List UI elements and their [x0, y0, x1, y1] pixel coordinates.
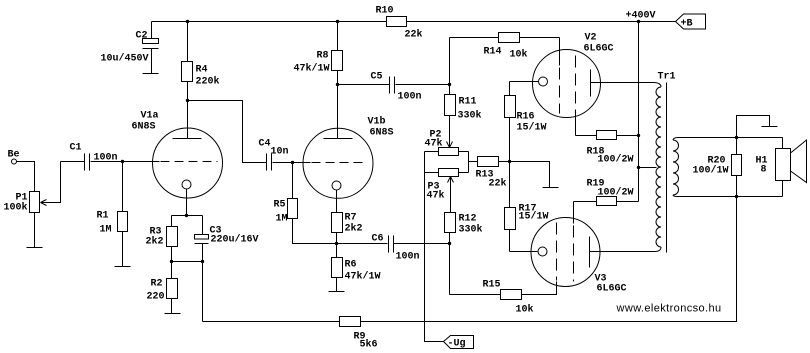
svg-text:6N8S: 6N8S [132, 122, 156, 133]
node R7 C6 junction [335, 242, 338, 245]
svg-text:47k: 47k [425, 138, 443, 150]
svg-text:330k: 330k [459, 224, 483, 236]
resistor R3 [146, 216, 178, 262]
resistor R15 [450, 244, 557, 316]
svg-text:1M: 1M [276, 214, 288, 225]
svg-text:V1b: V1b [368, 116, 386, 128]
svg-text:10k: 10k [510, 49, 528, 61]
svg-text:Tr1: Tr1 [658, 72, 676, 83]
resistor R5 [274, 163, 337, 244]
capacitor C2 [101, 22, 159, 74]
node R8 C5 junction [336, 83, 339, 86]
svg-text:220k: 220k [196, 76, 220, 88]
ground R16 R17 [510, 162, 559, 188]
svg-text:100n: 100n [396, 252, 420, 263]
resistor R17 [505, 162, 549, 252]
resistor R2 [147, 262, 178, 314]
resistor R10 [376, 6, 423, 41]
svg-text:C4: C4 [259, 139, 271, 150]
svg-text:2k2: 2k2 [345, 223, 363, 235]
ground R1 [115, 266, 131, 268]
node R4 plate junction [186, 99, 189, 102]
svg-text:C6: C6 [372, 234, 384, 245]
ground R6 [329, 291, 345, 293]
wire C3 to feedback rail [202, 262, 204, 322]
svg-text:15/1W: 15/1W [517, 122, 547, 134]
svg-text:8: 8 [761, 165, 767, 176]
node C3 bottom junction [201, 260, 204, 263]
resistor R16 [505, 82, 547, 162]
svg-text:5k6: 5k6 [360, 339, 378, 351]
svg-text:R14: R14 [484, 47, 502, 58]
wire +400V down rail [638, 22, 640, 202]
svg-text:47k/1W: 47k/1W [294, 63, 330, 75]
resistor R1 [97, 162, 128, 267]
potentiometer P3 [425, 169, 469, 202]
svg-text:C2: C2 [136, 31, 148, 42]
node R13 R16 junction [508, 160, 511, 163]
svg-text:R4: R4 [196, 65, 208, 76]
capacitor C6 [337, 234, 450, 263]
node top rail junction R4 [186, 20, 189, 23]
wire feedback bottom rail [361, 197, 737, 322]
svg-text:22k: 22k [405, 29, 423, 41]
node +400V [626, 11, 656, 24]
svg-text:R1: R1 [97, 211, 109, 222]
resistor R6 [332, 244, 381, 292]
svg-text:330k: 330k [458, 110, 482, 122]
node V1a cathode junction [185, 214, 188, 217]
svg-text:R16: R16 [517, 112, 535, 123]
svg-text:+400V: +400V [626, 11, 656, 22]
node C4 R5 junction [291, 161, 294, 164]
svg-text:R5: R5 [274, 200, 286, 211]
node secondary top junction [735, 136, 738, 139]
wire center tap [639, 167, 657, 169]
potentiometer P1 [4, 162, 61, 214]
svg-text:V2: V2 [585, 33, 597, 44]
svg-text:10k: 10k [516, 304, 534, 316]
wire secondary top [678, 137, 783, 139]
svg-text:47k/1W: 47k/1W [345, 271, 381, 283]
svg-text:R15: R15 [483, 280, 501, 291]
resistor R19 [574, 179, 639, 206]
tube V1a [123, 101, 223, 216]
svg-text:R6: R6 [345, 260, 357, 271]
svg-text:+B: +B [681, 19, 693, 30]
resistor R7 [332, 213, 363, 244]
svg-text:220u/16V: 220u/16V [211, 234, 259, 246]
resistor R8 [294, 22, 343, 85]
resistor R14 [450, 33, 560, 85]
tube V1b [293, 85, 394, 213]
node R3 R2 junction [170, 260, 173, 263]
svg-text:6L6GC: 6L6GC [584, 44, 614, 55]
terminal -Ug [444, 336, 474, 350]
svg-text:R11: R11 [459, 97, 477, 108]
tube V2 [510, 33, 655, 136]
resistor R12 [445, 182, 483, 244]
svg-text:100k: 100k [4, 202, 28, 214]
svg-text:100/1W: 100/1W [693, 165, 729, 177]
svg-text:220: 220 [147, 292, 165, 303]
node C6 R12 junction [448, 242, 451, 245]
node center tap junction [637, 166, 640, 169]
tube V3 [510, 202, 655, 295]
svg-text:R2: R2 [151, 279, 163, 290]
svg-text:47k: 47k [427, 190, 445, 202]
resistor R20 [693, 138, 742, 197]
svg-text:100n: 100n [398, 92, 422, 103]
node C5 R11 junction [448, 83, 451, 86]
node top rail junction R8 [336, 20, 339, 23]
svg-text:10u/450V: 10u/450V [101, 53, 149, 65]
potentiometer P2 [425, 130, 469, 156]
transformer Tr1 [655, 72, 679, 253]
svg-text:C5: C5 [371, 72, 383, 83]
svg-text:100n: 100n [94, 153, 118, 164]
svg-text:1M: 1M [100, 225, 112, 236]
capacitor C1 [61, 143, 123, 171]
wire P2 P3 left rail to -Ug [425, 152, 444, 342]
svg-text:15/1W: 15/1W [519, 211, 549, 223]
terminal +B [676, 14, 706, 30]
svg-text:10n: 10n [271, 147, 289, 158]
resistor R9 [203, 317, 378, 351]
wire top +400V rail [152, 21, 676, 23]
ground speaker [737, 116, 778, 138]
resistor R18 [576, 131, 639, 166]
resistor R13 [469, 157, 510, 190]
watermark www.elektroncso.hu [616, 303, 722, 315]
svg-text:V1a: V1a [141, 111, 159, 122]
svg-text:22k: 22k [489, 178, 507, 190]
resistor R4 [182, 22, 220, 101]
wire plate V1a to C4 [188, 101, 267, 163]
capacitor C3 [195, 216, 259, 262]
svg-text:R7: R7 [345, 213, 357, 224]
terminal Be input [8, 150, 35, 192]
svg-text:6L6GC: 6L6GC [597, 284, 627, 295]
svg-text:R12: R12 [459, 214, 477, 225]
wire cathode row V1a [172, 215, 203, 217]
svg-text:100/2W: 100/2W [598, 187, 634, 199]
svg-text:www.elektroncso.hu: www.elektroncso.hu [616, 303, 722, 315]
wire secondary bottom [678, 196, 783, 198]
node secondary bottom junction [735, 195, 738, 198]
svg-text:6N8S: 6N8S [370, 128, 394, 139]
svg-text:R10: R10 [376, 6, 394, 17]
node C1 R1 junction [121, 160, 124, 163]
ground P1 [27, 213, 43, 248]
svg-text:R8: R8 [317, 51, 329, 62]
wire cathode bottom row [172, 261, 203, 263]
node R18 rail junction [637, 134, 640, 137]
svg-text:100/2W: 100/2W [598, 154, 634, 166]
capacitor C4 [259, 139, 293, 171]
resistor R11 [445, 85, 482, 144]
svg-text:2k2: 2k2 [146, 236, 164, 248]
wire P2 P3 right rail [468, 152, 470, 173]
capacitor C5 [338, 72, 450, 103]
svg-text:C1: C1 [70, 143, 82, 154]
ground R2 [165, 313, 181, 315]
speaker H1 [756, 138, 807, 197]
svg-text:-Ug: -Ug [448, 339, 466, 350]
